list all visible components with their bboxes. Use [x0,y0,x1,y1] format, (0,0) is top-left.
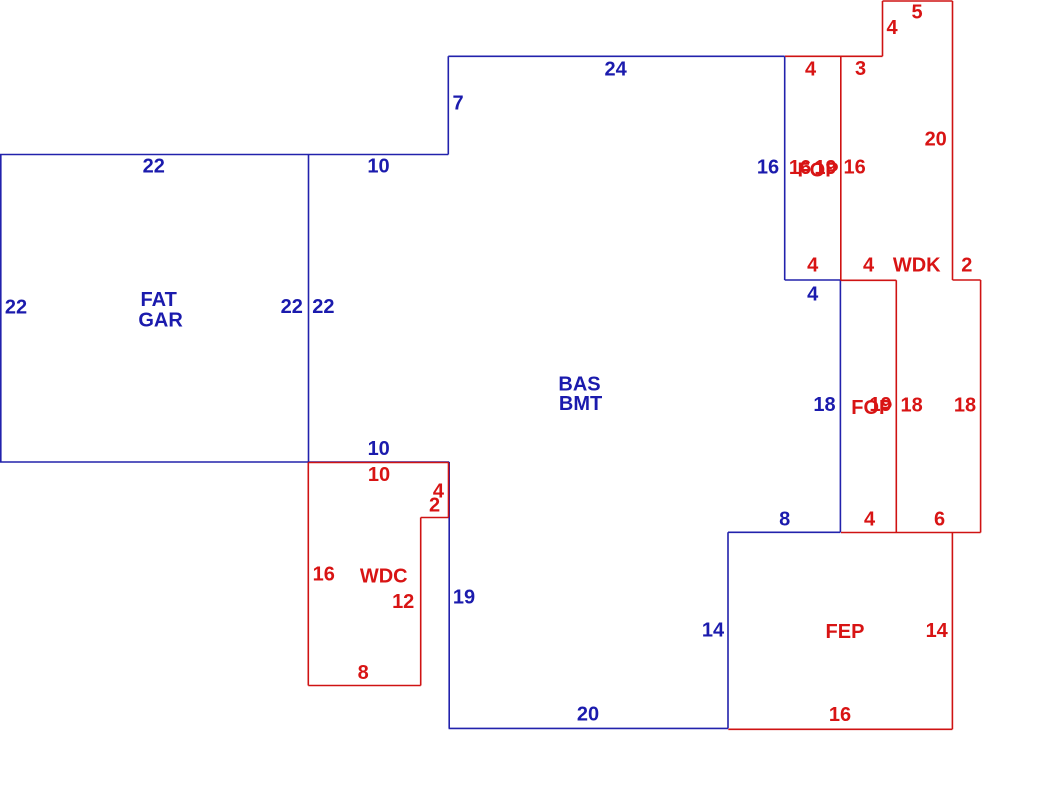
svg-text:2: 2 [429,494,440,516]
svg-text:18: 18 [900,394,922,416]
svg-text:19: 19 [869,394,891,416]
svg-text:19: 19 [814,157,836,179]
svg-text:18: 18 [954,394,976,416]
svg-text:4: 4 [805,58,817,80]
svg-text:5: 5 [911,1,922,23]
svg-text:22: 22 [281,296,303,318]
svg-text:16: 16 [843,157,865,179]
svg-text:4: 4 [807,255,819,277]
svg-text:BMT: BMT [559,393,602,415]
svg-text:22: 22 [143,156,165,178]
svg-text:FAT: FAT [141,289,177,311]
svg-text:FEP: FEP [826,621,865,643]
svg-text:19: 19 [453,587,475,609]
WDC outline [308,463,448,686]
svg-text:10: 10 [368,438,390,460]
svg-text:4: 4 [886,17,898,39]
svg-text:24: 24 [604,59,627,81]
svg-text:WDK: WDK [893,255,941,277]
svg-text:20: 20 [577,704,599,726]
svg-text:14: 14 [702,620,725,642]
svg-text:16: 16 [829,704,851,726]
svg-text:16: 16 [757,157,779,179]
svg-text:7: 7 [452,93,463,115]
svg-text:4: 4 [807,283,819,305]
svg-text:8: 8 [358,662,369,684]
svg-text:6: 6 [934,509,945,531]
FOP lower strip [841,280,981,532]
WDK outline [785,1,981,533]
svg-text:10: 10 [368,464,390,486]
svg-text:8: 8 [779,509,790,531]
svg-text:22: 22 [5,297,27,319]
svg-text:18: 18 [813,394,835,416]
FEP outline [728,533,952,730]
svg-text:20: 20 [925,128,947,150]
svg-text:WDC: WDC [360,566,408,588]
svg-text:22: 22 [312,296,334,318]
svg-text:3: 3 [855,58,866,80]
svg-text:10: 10 [367,156,389,178]
svg-text:12: 12 [392,591,414,613]
FAT GAR outline [0,155,309,463]
svg-text:2: 2 [961,255,972,277]
svg-text:4: 4 [863,255,875,277]
svg-text:GAR: GAR [138,310,183,332]
svg-text:16: 16 [313,563,335,585]
svg-text:4: 4 [864,509,876,531]
svg-text:14: 14 [926,620,949,642]
BAS BMT outline [309,56,841,728]
